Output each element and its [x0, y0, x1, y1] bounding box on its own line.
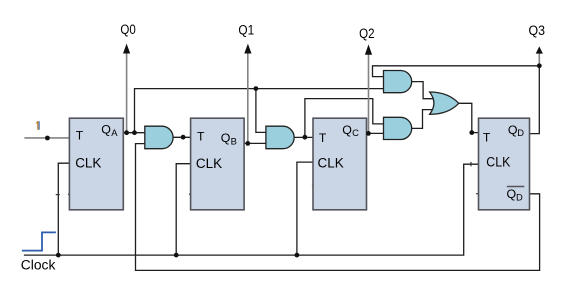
- svg-text:Q: Q: [101, 123, 111, 137]
- svg-text:Q1: Q1: [238, 23, 254, 38]
- svg-text:T: T: [483, 131, 491, 145]
- svg-text:B: B: [231, 136, 237, 147]
- svg-text:C: C: [352, 127, 359, 138]
- svg-text:Clock: Clock: [21, 258, 56, 273]
- svg-text:CLK: CLK: [486, 154, 510, 169]
- svg-text:Q0: Q0: [120, 22, 135, 37]
- svg-text:D: D: [516, 191, 523, 202]
- svg-text:CLK: CLK: [196, 156, 222, 171]
- svg-text:A: A: [111, 127, 118, 138]
- svg-text:T: T: [76, 129, 84, 143]
- svg-text:Q2: Q2: [359, 26, 374, 41]
- svg-text:T: T: [197, 129, 205, 143]
- svg-text:Q: Q: [342, 123, 352, 137]
- svg-text:Q: Q: [221, 131, 231, 145]
- svg-text:T: T: [319, 131, 327, 145]
- svg-text:Q3: Q3: [529, 23, 546, 38]
- svg-text:D: D: [517, 127, 524, 138]
- svg-text:CLK: CLK: [318, 156, 344, 171]
- svg-text:CLK: CLK: [75, 155, 101, 170]
- svg-text:Q: Q: [507, 187, 517, 201]
